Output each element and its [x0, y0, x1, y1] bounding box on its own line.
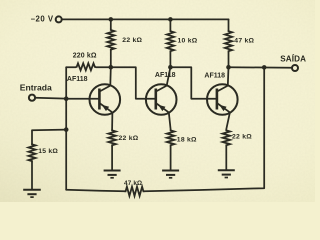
svg-text:–20 V: –20 V — [31, 15, 54, 24]
svg-text:220 kΩ: 220 kΩ — [73, 53, 97, 60]
svg-text:22 kΩ: 22 kΩ — [122, 37, 142, 44]
svg-text:47 kΩ: 47 kΩ — [234, 38, 254, 45]
svg-text:47 kΩ: 47 kΩ — [124, 180, 142, 187]
svg-text:18 kΩ: 18 kΩ — [177, 137, 197, 144]
svg-text:22 kΩ: 22 kΩ — [119, 135, 139, 142]
svg-text:15 kΩ: 15 kΩ — [38, 148, 58, 155]
svg-text:AF118: AF118 — [155, 72, 176, 79]
svg-text:10 kΩ: 10 kΩ — [178, 38, 198, 45]
svg-text:SAÍDA: SAÍDA — [280, 54, 306, 63]
svg-text:AF118: AF118 — [67, 76, 88, 83]
svg-text:Entrada: Entrada — [20, 83, 52, 93]
svg-text:AF118: AF118 — [204, 72, 225, 79]
svg-text:22 kΩ: 22 kΩ — [232, 133, 252, 140]
